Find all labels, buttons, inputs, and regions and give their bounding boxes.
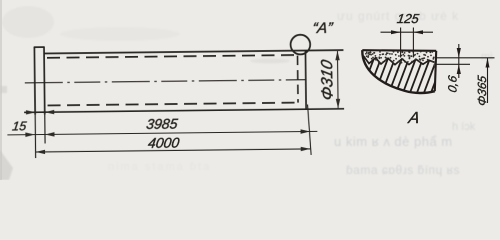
faint scan smudges top left <box>2 6 54 38</box>
scan smudge bottom-left corner <box>0 150 13 180</box>
detail outline: top edge <box>362 49 436 52</box>
end flange bar: right edge extension line <box>44 114 46 143</box>
scan smudge left edge mid <box>0 86 7 93</box>
detail outline: right edge <box>435 51 436 91</box>
svg-text:nima stama ɓta: nima stama ɓta <box>108 161 211 173</box>
dim 125: left arrow (outside, pointing right) <box>391 30 401 34</box>
pipe top line <box>44 50 343 53</box>
detail outline: bottom + left curved edge <box>362 50 435 93</box>
arrow 4000 right <box>301 147 311 152</box>
arrow 15-dim right (tip at flange right edge) <box>45 110 55 115</box>
right extension line for 3985/4000 dims <box>308 104 312 155</box>
pipe bottom line (extends left of flange for the 15 dim) <box>24 109 344 113</box>
inner bore dashed bottom line <box>48 103 298 106</box>
dim line 4000 <box>36 149 311 152</box>
svg-text:“A”: “A” <box>311 20 334 37</box>
svg-text:125: 125 <box>396 11 420 26</box>
page background <box>0 0 500 180</box>
svg-text:4000: 4000 <box>147 135 180 151</box>
dim 0,6: upper extension line <box>436 57 495 59</box>
scan edge strip left <box>0 0 2 180</box>
arrow 3985 left (tip at flange right edge) <box>45 132 55 137</box>
svg-text:Φ365: Φ365 <box>475 74 489 107</box>
arrow 3985 right <box>301 129 311 134</box>
inner bore dashed right vertical <box>297 56 300 103</box>
dim phi365: vertical dimension line <box>487 58 489 103</box>
svg-text:Φ310: Φ310 <box>318 58 336 102</box>
dim line phi310 vertical <box>336 51 339 108</box>
inner bore dashed top line <box>47 55 297 58</box>
end flange bar: left edge <box>33 47 36 114</box>
dim 0,6: top arrow (outside, pointing down) <box>457 48 461 58</box>
hatching of weld cross-section <box>359 53 453 98</box>
dim line 3985 (also carries outside arrows of the 15 dim) <box>7 131 317 135</box>
end flange bar: top cap <box>34 46 45 48</box>
dim 0,6: vertical dimension line <box>458 44 460 78</box>
arrow 15-dim left (on pipe bottom line, tip at flange left edge) <box>26 110 36 115</box>
stipple dots of facing band <box>365 51 435 64</box>
dim 0,6: bottom arrow (outside, pointing up) <box>457 64 461 74</box>
arrow phi310 bottom <box>336 99 341 109</box>
dim 125: left extension line <box>400 28 402 58</box>
arrow 4000 left <box>36 150 46 155</box>
svg-text:3985: 3985 <box>145 116 178 132</box>
svg-text:ɓama ɕɒθɹs ƃíпɥ ʁs: ɓama ɕɒθɹs ƃíпɥ ʁs <box>346 163 460 177</box>
svg-text:u kim ʁ ʌ dè phẩ m: u kim ʁ ʌ dè phẩ m <box>334 134 453 149</box>
dim phi365: arrow (pointing up) <box>486 58 490 68</box>
end flange bar: right edge <box>43 47 46 114</box>
svg-text:0,6: 0,6 <box>446 74 460 93</box>
centerline (dash-dot axis) <box>25 80 305 83</box>
weld detail callout circle A <box>290 35 310 55</box>
wavy boundary of facing layer <box>364 56 435 65</box>
pipe right end cap <box>304 50 307 110</box>
dim 0,6: lower extension line <box>435 63 470 65</box>
dim 125: dimension line <box>381 31 434 33</box>
dim 125: right arrow (outside, pointing left) <box>413 30 423 34</box>
arrow at x=33.5 pointing right (15 dim outside) <box>25 132 35 137</box>
dim 125: right extension line <box>412 28 414 58</box>
svg-text:h íɔk: h íɔk <box>452 121 476 133</box>
arrow phi310 top <box>335 51 340 61</box>
end flange bar: left edge extension line <box>34 115 36 158</box>
